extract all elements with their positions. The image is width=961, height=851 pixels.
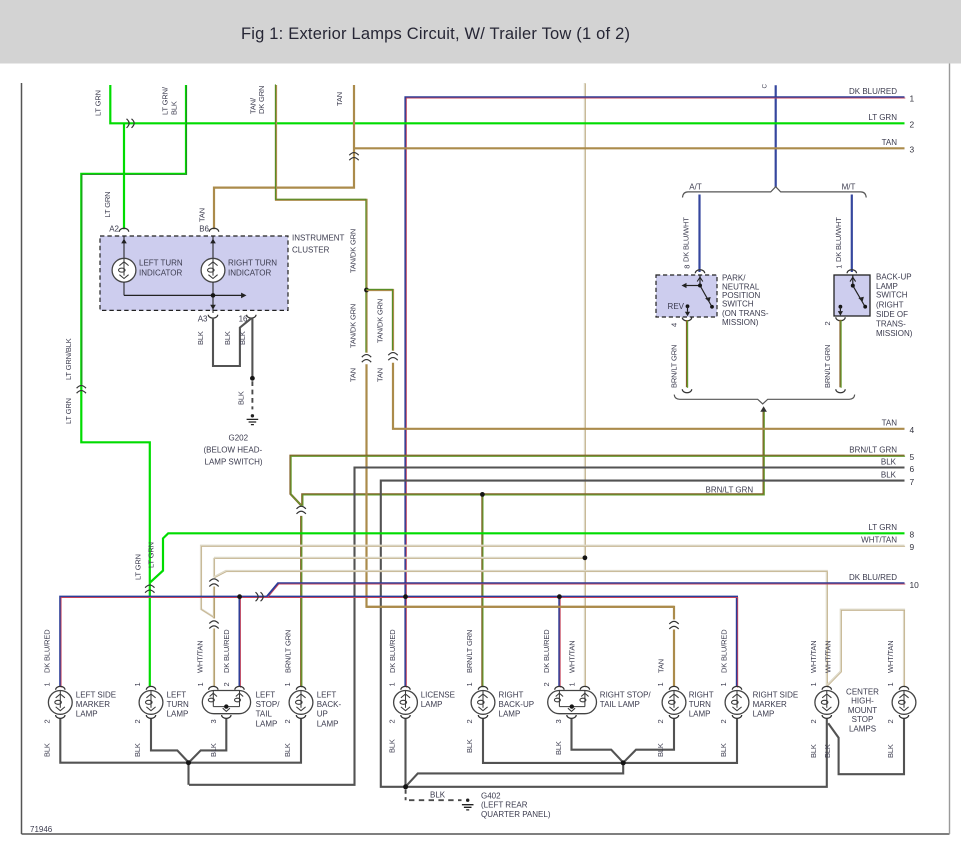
wire WHT/TAN cross link y=558 (214, 557, 586, 560)
svg-text:1: 1 (719, 682, 728, 686)
svg-text:LAMP: LAMP (421, 700, 443, 709)
wire WHT/TAN left vertical to left stop/tail pin 1 (196, 558, 215, 687)
lamp RIGHT SIDE MARKER LAMP (719, 682, 798, 757)
inline connector above left turn lamp x=150 (145, 585, 154, 593)
svg-text:BLK: BLK (238, 331, 247, 345)
svg-text:(ON TRANS-: (ON TRANS- (722, 309, 769, 318)
svg-text:A2: A2 (109, 224, 119, 233)
svg-text:MOUNT: MOUNT (848, 706, 877, 715)
svg-text:(RIGHT: (RIGHT (876, 300, 904, 309)
wire WHT/TAN branch to center high-mount lamp 1 (214, 571, 827, 687)
pin arc end of pin 4 wire at brace (682, 389, 691, 392)
svg-text:LT GRN/: LT GRN/ (161, 86, 170, 115)
svg-text:BLK: BLK (719, 743, 728, 757)
svg-text:STOP/: STOP/ (256, 700, 281, 709)
svg-text:Fig 1: Exterior Lamps Circuit,: Fig 1: Exterior Lamps Circuit, W/ Traile… (241, 25, 630, 43)
lamp LEFT TURN LAMP (133, 682, 189, 757)
wire DK BLU/RED distribution line y=597 (marker lamps and stop/tail) (42, 597, 737, 688)
svg-text:BRN/LT GRN: BRN/LT GRN (823, 345, 832, 388)
svg-text:TURN: TURN (689, 700, 711, 709)
svg-text:CLUSTER: CLUSTER (292, 246, 330, 255)
svg-text:BACK-UP: BACK-UP (499, 700, 535, 709)
arrow from brace to BRN/LT GRN bus (760, 406, 767, 412)
svg-text:WHT/TAN: WHT/TAN (196, 640, 205, 673)
wire BRN/LT GRN circuit 5 (291, 446, 915, 506)
svg-text:2: 2 (910, 120, 915, 130)
wire TAN circuit 4 (376, 363, 915, 435)
wire BLK dashed to ground G402 (406, 790, 462, 801)
svg-text:BLK: BLK (388, 739, 397, 753)
svg-text:LT GRN: LT GRN (868, 523, 897, 532)
svg-text:TAIL: TAIL (256, 710, 273, 719)
svg-text:TAN: TAN (376, 368, 385, 382)
svg-text:DK BLU/RED: DK BLU/RED (849, 87, 897, 96)
svg-text:DK GRN: DK GRN (257, 86, 266, 114)
wire WHT/TAN circuit 9 (201, 536, 915, 618)
svg-text:LT GRN/BLK: LT GRN/BLK (64, 338, 73, 380)
svg-text:DK BLU/RED: DK BLU/RED (42, 629, 51, 673)
lamp LICENSE LAMP (388, 682, 455, 753)
inline connector on TAN/DK GRN x=366 (362, 355, 371, 363)
junction node y=597 at x=405 (403, 594, 408, 599)
junction node TAN/DK GRN tee (364, 288, 369, 293)
svg-text:1: 1 (809, 682, 818, 686)
junction node right BLK bus (621, 760, 626, 765)
svg-text:TAIL LAMP: TAIL LAMP (600, 700, 640, 709)
svg-text:1: 1 (568, 682, 577, 686)
svg-text:BLK: BLK (196, 331, 205, 345)
wire BRN/LT GRN from park/neutral pin 4 (669, 320, 687, 388)
svg-text:71946: 71946 (30, 825, 53, 834)
wire TAN to right turn lamp (below connector x=366) (348, 364, 674, 687)
wire LT GRN left feed (LT GRN/BLK from top to left turn lamp) (64, 85, 186, 687)
svg-text:1: 1 (910, 94, 915, 104)
inline connector on WHT/TAN x=214 lower (209, 621, 218, 629)
wire BRN/LT GRN drop to right back-up lamp (465, 494, 483, 687)
lamp RIGHT TURN LAMP (656, 682, 714, 757)
svg-text:INSTRUMENT: INSTRUMENT (292, 234, 345, 243)
svg-text:(BELOW HEAD-: (BELOW HEAD- (204, 445, 263, 454)
wire BLK circuit 7 (381, 471, 915, 787)
svg-text:RIGHT STOP/: RIGHT STOP/ (600, 690, 652, 699)
svg-text:INDICATOR: INDICATOR (139, 269, 182, 278)
wire WHT/TAN main vertical x=585 to right stop/tail pin 1 (567, 83, 585, 687)
svg-text:DK BLU/RED: DK BLU/RED (388, 629, 397, 673)
svg-text:LICENSE: LICENSE (421, 690, 455, 699)
connector pin 16 (239, 314, 256, 323)
svg-text:(LEFT REAR: (LEFT REAR (481, 801, 528, 810)
svg-text:MARKER: MARKER (753, 700, 787, 709)
connector pin A3 (198, 314, 218, 323)
wire DK BLU trunk to transmission switches (761, 84, 775, 188)
svg-text:4: 4 (670, 323, 679, 327)
wire BLK circuit 6 (189, 457, 915, 784)
connector pin B6 (199, 224, 218, 233)
svg-text:BRN/LT GRN: BRN/LT GRN (849, 446, 897, 455)
svg-text:TAN: TAN (348, 368, 357, 382)
ground G202 (204, 414, 263, 466)
svg-text:1: 1 (133, 682, 142, 686)
svg-text:LAMP: LAMP (317, 719, 339, 728)
svg-text:TAN: TAN (882, 138, 898, 147)
wire TAN circuit 3 and feed to B6 (197, 85, 914, 229)
svg-text:TAN/DK GRN: TAN/DK GRN (348, 229, 357, 273)
svg-text:LAMP: LAMP (256, 719, 278, 728)
wire DK BLU/RED circuit 1 feed to license lamp (x=405) (406, 87, 915, 687)
cluster internal ground bus with arrow (124, 293, 247, 310)
wire DK BLU/RED circuit 10 (267, 573, 919, 597)
wire BRN/LT GRN bus from switches to back-up lamps (302, 410, 764, 506)
left turn indicator lamp (112, 236, 136, 295)
lamp LEFT SIDE MARKER LAMP (42, 682, 116, 757)
lamp RIGHT BACK-UP LAMP (465, 682, 534, 753)
svg-text:LEFT: LEFT (167, 690, 187, 699)
junction node y=597 at x=240 (237, 594, 242, 599)
svg-text:LAMP: LAMP (689, 709, 711, 718)
svg-text:LT GRN: LT GRN (147, 542, 156, 568)
svg-text:C: C (761, 84, 768, 89)
svg-text:A3: A3 (198, 314, 208, 323)
svg-text:MISSION): MISSION) (722, 318, 759, 327)
svg-text:TAN: TAN (335, 92, 344, 106)
connector pin A2 (109, 224, 128, 233)
svg-text:2: 2 (542, 682, 551, 686)
svg-text:1: 1 (835, 265, 844, 269)
svg-text:LT GRN: LT GRN (64, 398, 73, 424)
inline connector on WHT/TAN x=214 upper (209, 579, 218, 587)
svg-text:1: 1 (656, 682, 665, 686)
diagram frame bottom border (22, 833, 950, 835)
svg-text:TAN/DK GRN: TAN/DK GRN (348, 304, 357, 348)
wire LT GRN circuit 2 (94, 85, 915, 130)
svg-text:BLK: BLK (656, 743, 665, 757)
inline connector on DK BLU/RED y=597 (256, 592, 264, 601)
wire DK BLU/RED drop to left stop/tail pin 2 (222, 597, 240, 688)
inline connector on TAN/DK GRN x=393 (388, 353, 397, 361)
svg-text:LEFT SIDE: LEFT SIDE (76, 690, 116, 699)
wire DK BLU/WHT to park/neutral switch pin 8 (682, 195, 700, 273)
junction node left BLK bus (186, 760, 191, 765)
svg-text:1: 1 (196, 682, 205, 686)
svg-text:BLK: BLK (823, 744, 832, 758)
instrument cluster U-IC (100, 234, 345, 311)
svg-text:2: 2 (465, 719, 474, 723)
svg-text:2: 2 (886, 719, 895, 723)
wire LT GRN circuit 8 (147, 523, 915, 582)
svg-text:TRANS-: TRANS- (876, 320, 906, 329)
svg-text:BRN/LT GRN: BRN/LT GRN (669, 345, 678, 388)
svg-text:A/T: A/T (689, 182, 702, 191)
pin arc end of pin 2 wire at brace (836, 389, 845, 392)
svg-text:8: 8 (910, 530, 915, 540)
svg-text:BLK: BLK (209, 743, 218, 757)
lamp RIGHT STOP/TAIL LAMP (dual filament) (542, 682, 651, 755)
svg-text:B6: B6 (199, 224, 209, 233)
svg-text:BRN/LT GRN: BRN/LT GRN (706, 485, 754, 494)
svg-text:3: 3 (910, 145, 915, 155)
lamp CENTER HIGH-MOUNT STOP LAMP 1 (809, 682, 839, 758)
svg-text:WHT/TAN: WHT/TAN (809, 640, 818, 673)
svg-text:RIGHT: RIGHT (499, 690, 524, 699)
junction node y=597 at x=559 (557, 594, 562, 599)
svg-text:2: 2 (823, 321, 832, 325)
svg-text:UP: UP (317, 710, 328, 719)
svg-text:M/T: M/T (842, 182, 856, 191)
svg-text:BACK-UP: BACK-UP (876, 273, 912, 282)
svg-text:TAN: TAN (882, 419, 898, 428)
svg-text:BLK: BLK (809, 744, 818, 758)
svg-text:WHT/TAN: WHT/TAN (861, 536, 897, 545)
wire DK BLU/WHT to back-up lamp switch pin 1 (834, 195, 852, 273)
svg-text:3: 3 (209, 719, 218, 723)
svg-text:BLK: BLK (430, 790, 446, 799)
svg-text:DK BLU/RED: DK BLU/RED (542, 629, 551, 673)
svg-text:6: 6 (910, 464, 915, 474)
svg-text:MISSION): MISSION) (876, 329, 913, 338)
svg-text:2: 2 (283, 719, 292, 723)
svg-text:BRN/LT GRN: BRN/LT GRN (283, 630, 292, 673)
svg-text:WHT/TAN: WHT/TAN (567, 640, 576, 673)
svg-text:LAMP SWITCH): LAMP SWITCH) (205, 457, 263, 466)
title bar (0, 0, 961, 64)
svg-text:BLK: BLK (236, 391, 245, 405)
svg-text:TAN: TAN (197, 208, 206, 222)
svg-text:1: 1 (465, 682, 474, 686)
svg-text:2: 2 (809, 719, 818, 723)
svg-text:1: 1 (283, 682, 292, 686)
brace A/T M/T split (683, 182, 867, 197)
svg-text:TAN/DK GRN: TAN/DK GRN (376, 299, 385, 343)
svg-text:2: 2 (42, 719, 51, 723)
svg-text:1: 1 (388, 682, 397, 686)
svg-text:10: 10 (910, 580, 920, 590)
svg-text:SIDE OF: SIDE OF (876, 310, 908, 319)
wire TAN horizontal overlay at lamp feeds (367, 606, 675, 608)
svg-text:RIGHT SIDE: RIGHT SIDE (753, 690, 799, 699)
svg-text:1: 1 (886, 682, 895, 686)
svg-text:DK BLU/RED: DK BLU/RED (222, 629, 231, 673)
wire LT GRN drop to A2 instrument cluster (103, 123, 124, 229)
svg-text:BLK: BLK (881, 471, 897, 480)
svg-text:TAN: TAN (657, 659, 666, 673)
svg-text:LT GRN: LT GRN (103, 192, 112, 218)
wire BLK bus to center high-mount lamps (406, 718, 827, 787)
svg-text:2: 2 (222, 682, 231, 686)
svg-text:7: 7 (910, 477, 915, 487)
svg-text:LT GRN: LT GRN (868, 113, 897, 122)
svg-text:DK BLU/WHT: DK BLU/WHT (834, 217, 843, 262)
lamp CENTER HIGH-MOUNT STOP LAMP 2 (846, 682, 916, 758)
svg-text:2: 2 (656, 719, 665, 723)
wire BRN/LT GRN drop to left back-up lamp (283, 516, 301, 687)
brace merge below switches (674, 395, 855, 404)
svg-text:DK BLU/RED: DK BLU/RED (849, 573, 897, 582)
svg-text:BLK: BLK (881, 457, 897, 466)
wire BLK grounds of right lamp group (406, 718, 737, 786)
wire DK BLU/RED drop to right stop/tail pin 2 (542, 597, 560, 688)
svg-text:BRN/LT GRN: BRN/LT GRN (465, 630, 474, 673)
wire TAN/DK GRN from top (x=276) (249, 84, 367, 352)
inline connector on TAN above right turn lamp (669, 621, 678, 629)
svg-text:LAMP: LAMP (167, 709, 189, 718)
park/neutral position switch U-PN (656, 270, 769, 327)
svg-text:QUARTER PANEL): QUARTER PANEL) (481, 810, 551, 819)
junction node G402 splice (403, 784, 408, 789)
wire TAN/DK GRN branch to circuit 4 (x=393) (366, 289, 393, 350)
svg-text:LAMPS: LAMPS (849, 724, 876, 733)
junction node BRN/LT GRN bus at x=482 (480, 492, 485, 497)
svg-text:SWITCH: SWITCH (876, 291, 908, 300)
svg-text:REV: REV (668, 302, 685, 311)
wire BLK license lamp ground (404, 718, 406, 787)
wire WHT/TAN branch to center high-mount lamp 2 (823, 610, 904, 688)
svg-text:DK BLU/RED: DK BLU/RED (719, 629, 728, 673)
svg-text:BLK: BLK (223, 331, 232, 345)
inline connector on TAN wire below circuit 3 branch (349, 153, 358, 161)
svg-text:1: 1 (42, 682, 51, 686)
svg-text:TURN: TURN (167, 700, 189, 709)
svg-text:2: 2 (133, 719, 142, 723)
diagram frame right border (949, 64, 951, 835)
svg-text:5: 5 (910, 452, 915, 462)
svg-text:LEFT TURN: LEFT TURN (139, 259, 183, 268)
svg-text:LT GRN: LT GRN (133, 554, 142, 580)
svg-text:MARKER: MARKER (76, 700, 110, 709)
svg-text:SWITCH: SWITCH (722, 299, 754, 308)
svg-text:STOP: STOP (852, 715, 874, 724)
svg-text:2: 2 (719, 719, 728, 723)
svg-text:BLK: BLK (42, 743, 51, 757)
svg-text:LAMP: LAMP (499, 709, 521, 718)
svg-text:3: 3 (554, 719, 563, 723)
inline connector above left back-up lamp (297, 506, 306, 514)
svg-text:2: 2 (388, 719, 397, 723)
svg-text:BLK: BLK (886, 744, 895, 758)
svg-text:DK BLU/WHT: DK BLU/WHT (682, 217, 691, 262)
svg-text:LAMP: LAMP (76, 709, 98, 718)
diagram frame left border (21, 83, 23, 834)
wire BLK jumper A3 to 16 (196, 318, 251, 366)
svg-text:INDICATOR: INDICATOR (228, 269, 271, 278)
svg-text:LEFT: LEFT (256, 690, 276, 699)
svg-text:8: 8 (682, 265, 691, 269)
svg-text:WHT/TAN: WHT/TAN (886, 640, 895, 673)
lamp LEFT BACK-UP LAMP (283, 682, 341, 757)
svg-text:G402: G402 (481, 792, 501, 801)
svg-text:RIGHT: RIGHT (689, 690, 714, 699)
svg-text:CENTER: CENTER (846, 688, 879, 697)
svg-text:LEFT: LEFT (317, 690, 337, 699)
svg-text:9: 9 (910, 542, 915, 552)
svg-text:G202: G202 (229, 433, 249, 442)
svg-text:LT GRN: LT GRN (94, 90, 103, 116)
svg-text:LAMP: LAMP (753, 709, 775, 718)
junction node WHT/TAN at x=585 (583, 555, 588, 560)
svg-text:BACK-: BACK- (317, 700, 342, 709)
wire BLK grounds of left lamp group (60, 718, 301, 785)
back-up lamp switch U-BU (823, 270, 913, 338)
right turn indicator lamp (201, 236, 225, 313)
wire BLK center high-mount lamp 2 ground (828, 718, 904, 774)
svg-text:LAMP: LAMP (876, 282, 898, 291)
ground G402 (462, 792, 551, 819)
svg-text:4: 4 (910, 425, 915, 435)
svg-text:BLK: BLK (465, 739, 474, 753)
svg-text:BLK: BLK (554, 741, 563, 755)
svg-text:HIGH-: HIGH- (851, 697, 874, 706)
inline connector on wire 2 (127, 119, 135, 128)
svg-text:BLK: BLK (170, 101, 179, 115)
wire BLK from pin 16 to ground G202 (236, 318, 255, 409)
lamp LEFT STOP/TAIL LAMP (dual filament) (196, 682, 280, 757)
wire BRN/LT GRN from back-up switch pin 2 (823, 320, 841, 388)
svg-text:WHT/TAN: WHT/TAN (823, 640, 832, 673)
svg-text:BLK: BLK (283, 743, 292, 757)
svg-text:RIGHT TURN: RIGHT TURN (228, 259, 277, 268)
inline connector on left LT GRN wire x=81 (77, 386, 86, 394)
svg-text:BLK: BLK (133, 743, 142, 757)
